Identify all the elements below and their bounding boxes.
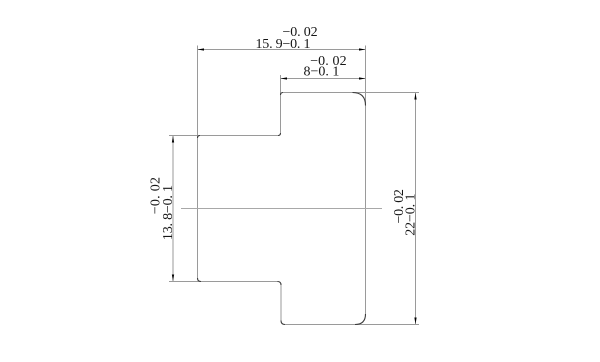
notch left edge	[280, 285, 282, 321]
left edge of flange (merged with extension line of 15.9 dim)	[197, 46, 199, 279]
fillet arc, notch bottom corner	[281, 321, 285, 325]
arrowhead 22 bottom	[414, 318, 416, 325]
fillet arc, upper step inner corner	[278, 133, 281, 136]
fillet arc, top-right corner R13	[353, 93, 366, 106]
dimension line 13.8	[172, 136, 174, 282]
right edge (merged with extension line of 15.9 dim)	[365, 46, 367, 315]
arrowhead 22 top	[414, 93, 416, 100]
fillet arc, flange top-left corner	[198, 136, 201, 139]
svg-text:8−0. 1: 8−0. 1	[304, 65, 340, 80]
left edge of boss (merged with extension line of 8 dim)	[280, 75, 282, 133]
upper step edge (merged with extension line of 13.8 dim)	[169, 135, 278, 137]
svg-text:15. 9−0. 1: 15. 9−0. 1	[256, 37, 311, 52]
dimension line 22	[415, 93, 417, 325]
top edge of boss (merged with right extension line of 22 dim)	[283, 92, 420, 94]
dimension line 8	[281, 78, 366, 80]
arrowhead 15.9 left	[198, 48, 205, 50]
arrowhead 13.8 bottom	[172, 275, 174, 282]
fillet arc, flange bottom-left corner	[198, 278, 202, 282]
svg-text:22−0. 1: 22−0. 1	[403, 194, 418, 236]
svg-text:13. 8−0. 1: 13. 8−0. 1	[161, 185, 176, 240]
lower step edge (merged with extension line of 13.8 dim)	[169, 281, 278, 283]
arrowhead 13.8 top	[172, 136, 174, 143]
fillet arc, boss top-left corner	[281, 93, 284, 96]
arrowhead 8 left	[281, 77, 288, 79]
fillet arc, notch inner corner	[278, 282, 282, 286]
fillet arc, bottom-right corner R10.5	[355, 314, 366, 325]
bottom edge (merged with right extension line of 22 dim)	[285, 324, 419, 326]
arrowhead 8 right	[359, 77, 366, 79]
arrowhead 15.9 right	[359, 48, 366, 50]
dimension line 15.9	[198, 49, 366, 51]
center line	[181, 208, 382, 210]
